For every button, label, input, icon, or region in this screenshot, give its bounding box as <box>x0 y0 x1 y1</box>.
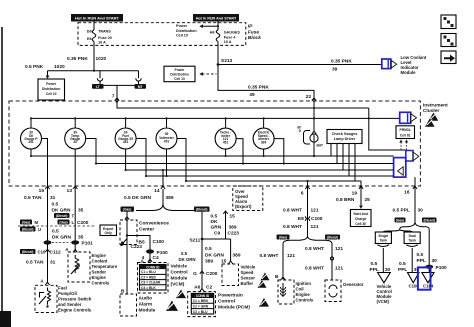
ESD icon PCM <box>259 298 269 307</box>
svg-text:(Diesel): (Diesel) <box>56 214 68 218</box>
svg-text:Export: Export <box>103 227 114 231</box>
VCM connector ID table <box>140 265 167 291</box>
svg-text:C200: C200 <box>77 220 89 226</box>
junction convenience <box>126 234 128 236</box>
svg-text:10 A: 10 A <box>98 40 106 44</box>
vehicle speed sensor buffer dashed box <box>222 264 239 286</box>
gauge side terminal wires <box>42 139 284 187</box>
svg-text:Dual: Dual <box>409 234 416 238</box>
svg-text:U: U <box>38 227 41 232</box>
wire pin6 down <box>307 186 309 236</box>
label 0.5 PPL 30 dual <box>398 261 419 273</box>
svg-text:Controls: Controls <box>296 297 314 302</box>
label 0.5 PNK 1020 <box>25 64 65 70</box>
svg-text:C100: C100 <box>311 216 323 222</box>
svg-text:0.5 TAN: 0.5 TAN <box>24 195 42 201</box>
indicator bulb lamp <box>297 125 323 157</box>
svg-text:(Gas): (Gas) <box>123 208 131 212</box>
svg-text:DK GRN: DK GRN <box>205 253 224 259</box>
wire diesel to generator <box>331 244 333 280</box>
svg-text:C4 = BLK: C4 = BLK <box>141 286 156 290</box>
label 0.5 PPL 30 <box>393 207 424 213</box>
pin 14 drop <box>162 170 164 186</box>
svg-text:C3 = BLU: C3 = BLU <box>193 310 208 314</box>
svg-text:GAUGES: GAUGES <box>224 31 241 35</box>
wire gas branch down <box>126 212 128 236</box>
label (Gas) split left <box>121 207 135 212</box>
wire GAUGES fuse down to S213 <box>217 42 219 65</box>
wire over speed to S211 and VSS buffer <box>202 211 231 262</box>
svg-text:Check Gauges: Check Gauges <box>332 132 358 136</box>
VCM text <box>171 263 188 287</box>
wire pin6 split <box>283 236 332 244</box>
svg-text:and Sender: and Sender <box>58 302 82 307</box>
svg-text:31: 31 <box>50 195 56 201</box>
nav icon button 3 (arrow) <box>441 51 456 64</box>
splice S213 <box>217 58 233 66</box>
svg-text:0.8 WHT: 0.8 WHT <box>260 253 279 259</box>
svg-text:TRANS: TRANS <box>98 29 111 33</box>
svg-text:(Diesel): (Diesel) <box>196 208 208 212</box>
svg-text:389: 389 <box>205 258 213 264</box>
svg-text:0.5: 0.5 <box>211 213 218 219</box>
svg-text:0.5 TAN: 0.5 TAN <box>26 259 44 265</box>
svg-text:C100: C100 <box>153 239 165 245</box>
svg-text:Alarm: Alarm <box>139 301 153 307</box>
svg-text:Hot In RUN And START: Hot In RUN And START <box>75 16 120 21</box>
svg-text:(VCM): (VCM) <box>377 299 390 304</box>
gauge: oil gauge <box>21 128 42 149</box>
svg-text:C1 = BRN: C1 = BRN <box>193 299 209 303</box>
svg-text:C223: C223 <box>131 244 143 250</box>
svg-text:35: 35 <box>78 234 84 240</box>
labels S211 to PCM left <box>179 251 196 262</box>
svg-text:Ignition: Ignition <box>296 281 312 286</box>
label 0.5 TAN 31 <box>24 195 56 201</box>
svg-text:399: 399 <box>261 140 267 144</box>
VCM text right <box>377 284 393 304</box>
svg-text:C223: C223 <box>228 231 240 237</box>
wire header to GAUGES fuse <box>217 22 219 31</box>
wire right feed down <box>369 108 406 150</box>
svg-text:C104: C104 <box>423 283 434 288</box>
svg-text:(Diesel): (Diesel) <box>22 250 34 254</box>
svg-text:Distribution: Distribution <box>176 29 197 33</box>
svg-text:Engine: Engine <box>92 253 107 258</box>
label 0.5 TAN 31 (2) <box>26 259 56 265</box>
labels S211 to PCM right <box>205 246 241 265</box>
svg-text:6: 6 <box>301 190 304 196</box>
svg-text:Controls: Controls <box>92 280 110 285</box>
svg-text:Pressure Switch: Pressure Switch <box>58 296 92 301</box>
wire audio alarm branch <box>126 236 128 294</box>
svg-text:DK GRN: DK GRN <box>52 207 71 213</box>
svg-text:PRNDL: PRNDL <box>400 128 411 132</box>
svg-text:35: 35 <box>78 207 84 213</box>
blue connector top right <box>400 112 417 123</box>
label (Diesel) tank <box>422 218 437 223</box>
caret fuel pump <box>45 282 49 285</box>
svg-text:PPL: PPL <box>398 267 407 273</box>
svg-text:Coil: Coil <box>296 286 304 291</box>
IP fuse block dashed box <box>78 23 246 46</box>
gauge: temp gauge <box>65 128 86 149</box>
svg-text:Audio: Audio <box>139 295 153 301</box>
wire pin 19 to start and charge <box>359 186 363 209</box>
ignition coil text <box>296 281 314 303</box>
inline connector P100 (right) <box>425 265 447 271</box>
svg-text:0.8 WHT: 0.8 WHT <box>283 224 302 230</box>
svg-text:C10: C10 <box>38 250 46 255</box>
svg-text:P101: P101 <box>82 241 94 247</box>
fuel pump text <box>58 285 92 312</box>
svg-text:25: 25 <box>365 197 371 203</box>
svg-text:A: A <box>40 278 43 283</box>
svg-text:(Gas): (Gas) <box>396 219 404 223</box>
wire pin 7 drop <box>112 85 119 102</box>
wire S213 down right to pin 22 <box>218 65 316 102</box>
label 0.8 WHT 121 <box>283 207 319 213</box>
svg-text:(Gas): (Gas) <box>279 236 287 240</box>
svg-text:0.5: 0.5 <box>399 261 406 267</box>
svg-text:Cell 10: Cell 10 <box>174 77 185 81</box>
svg-text:C2 = GRN: C2 = GRN <box>193 304 209 308</box>
off-page triangle C104 <box>422 273 434 283</box>
svg-text:16: 16 <box>404 189 410 195</box>
over speed alarm dashed box <box>233 186 263 211</box>
svg-text:0.8 WHT: 0.8 WHT <box>305 246 324 252</box>
svg-text:0.5: 0.5 <box>371 261 378 267</box>
blue highlight rectangle <box>418 267 431 289</box>
svg-text:(Gas): (Gas) <box>22 221 30 225</box>
svg-text:S211: S211 <box>189 238 200 244</box>
svg-text:451: 451 <box>28 140 34 144</box>
svg-text:Power: Power <box>175 68 186 72</box>
svg-text:13: 13 <box>67 188 73 194</box>
svg-text:1020: 1020 <box>96 56 107 62</box>
off-page triangle VCM <box>378 273 391 283</box>
svg-text:A: A <box>65 247 68 252</box>
svg-text:Fuel: Fuel <box>58 285 67 290</box>
svg-text:C200: C200 <box>206 271 218 277</box>
svg-text:G: G <box>193 271 197 277</box>
svg-text:Sender: Sender <box>92 269 107 274</box>
fuse F4 GAUGES <box>210 30 241 44</box>
wire gas tank split <box>383 230 412 233</box>
low coolant module text <box>401 55 427 75</box>
wire S211 to PCM <box>201 239 203 290</box>
connector A6 C2 <box>194 284 212 291</box>
svg-text:BAT: BAT <box>317 144 323 148</box>
wire TRANS fuse down <box>93 42 95 71</box>
svg-text:M: M <box>35 220 39 225</box>
svg-text:Center: Center <box>139 226 154 232</box>
svg-text:0.5 DK GRN: 0.5 DK GRN <box>124 195 151 201</box>
label (Gas) L C200 <box>58 220 89 227</box>
svg-text:CONN ID: CONN ID <box>196 294 210 298</box>
svg-text:39: 39 <box>332 66 338 72</box>
blue connector bottom right assembly <box>394 151 419 178</box>
fuel pump / oil pressure switch box <box>35 285 57 312</box>
label (Gas) M <box>20 220 39 226</box>
svg-text:Fuse 20: Fuse 20 <box>98 36 112 40</box>
engine coolant temperature sender box <box>68 252 90 282</box>
svg-text:Power: Power <box>46 82 57 86</box>
svg-text:22: 22 <box>306 94 312 100</box>
connector line C200 <box>18 225 95 227</box>
svg-text:30: 30 <box>432 258 438 264</box>
dual tank box <box>404 232 420 244</box>
gauge: electric speedometer <box>253 128 274 149</box>
wire single tank down <box>382 248 384 272</box>
svg-text:15: 15 <box>230 213 236 219</box>
check gauges lamp driver box <box>327 130 362 144</box>
svg-text:Cell 81: Cell 81 <box>400 134 411 138</box>
svg-text:Module (PCM): Module (PCM) <box>218 305 250 311</box>
connector socket MT <box>136 71 141 86</box>
svg-text:C9: C9 <box>214 231 220 237</box>
svg-text:Lamp Driver: Lamp Driver <box>334 137 356 141</box>
svg-text:35: 35 <box>73 140 77 144</box>
labels over speed wire <box>228 213 240 236</box>
label A + caret VCM <box>141 258 153 263</box>
export only box <box>100 225 117 236</box>
ESD icons audio <box>166 290 186 311</box>
svg-text:1020: 1020 <box>54 64 65 70</box>
caret convenience center <box>125 217 129 220</box>
generator dashed box <box>325 280 341 302</box>
svg-text:S213: S213 <box>221 58 233 64</box>
label B + caret ignition <box>275 274 285 280</box>
label 0.5 DK GRN 35 (2) <box>52 228 84 240</box>
PCM dashed box <box>188 292 216 317</box>
svg-text:0.35 PNK: 0.35 PNK <box>331 58 352 64</box>
svg-text:C4: C4 <box>153 255 159 261</box>
svg-text:0.5: 0.5 <box>52 228 59 234</box>
svg-text:H6: H6 <box>210 30 215 34</box>
svg-text:Power: Power <box>176 24 188 28</box>
svg-text:(Export): (Export) <box>235 204 252 209</box>
junction dots bundle <box>30 155 285 182</box>
svg-text:Fuse: Fuse <box>248 30 260 36</box>
wire diesel tank down <box>428 230 430 273</box>
audio alarm module dashed box <box>120 294 137 316</box>
svg-text:(VCM): (VCM) <box>171 281 185 287</box>
svg-text:121: 121 <box>287 253 295 259</box>
svg-text:0.5: 0.5 <box>52 201 59 207</box>
svg-text:Temperature: Temperature <box>92 264 118 269</box>
svg-text:C112: C112 <box>50 250 62 256</box>
connector G C200 <box>193 271 218 277</box>
wire pin 22 internal <box>313 101 315 132</box>
svg-text:(Diesel): (Diesel) <box>22 228 34 232</box>
svg-text:121: 121 <box>335 246 343 252</box>
label MT <box>135 84 147 89</box>
svg-text:39: 39 <box>249 92 255 98</box>
svg-text:31: 31 <box>50 259 56 265</box>
svg-text:Vehicle: Vehicle <box>171 263 188 269</box>
nav icon button 2 <box>441 34 456 47</box>
svg-text:E8: E8 <box>298 216 304 222</box>
svg-text:14: 14 <box>154 188 160 194</box>
svg-text:Single: Single <box>378 234 388 238</box>
connector symbol generator wire <box>330 257 333 260</box>
svg-text:DK: DK <box>211 219 218 225</box>
wire gauge bus <box>31 117 400 119</box>
gauge drop wires <box>31 118 264 128</box>
svg-text:Cell 30: Cell 30 <box>355 222 366 226</box>
frame left border <box>1 27 3 327</box>
inline connector P100 <box>146 249 168 255</box>
svg-text:30: 30 <box>418 207 424 213</box>
svg-text:L: L <box>72 220 75 225</box>
label 0.5 PPL 30 diesel <box>417 252 438 264</box>
wire dual tank down <box>411 248 413 272</box>
connector socket LT <box>97 71 102 86</box>
wire pin14 split <box>136 189 194 211</box>
splice S211 <box>189 238 203 244</box>
wire junction to C100 branch <box>127 236 150 263</box>
caret VSS buffer <box>228 261 232 264</box>
power distribution cell 10 box (mid) <box>164 66 195 82</box>
arrow to power distribution <box>46 71 50 79</box>
label 0.8 WHT 121 diesel lower <box>305 265 343 271</box>
svg-text:(Gas): (Gas) <box>59 221 67 225</box>
convenience center dashed box <box>120 220 137 245</box>
svg-text:PPL: PPL <box>417 258 426 264</box>
instrument cluster label <box>423 103 448 115</box>
svg-text:C2 = RED: C2 = RED <box>141 275 157 279</box>
ESD warning icon (cluster) <box>425 113 438 127</box>
label 0.5 DK GRN 35 <box>52 201 84 213</box>
wire split bar <box>48 70 139 72</box>
svg-text:T: T <box>72 214 75 219</box>
svg-text:Hot In RUN And START: Hot In RUN And START <box>196 17 237 21</box>
dashed arrow to power distribution box <box>199 72 216 76</box>
svg-text:451: 451 <box>123 140 129 144</box>
svg-text:0.5 PPL: 0.5 PPL <box>393 207 410 213</box>
label (Diesel) C10 <box>20 249 46 255</box>
wire pin16 down <box>414 186 416 222</box>
pin 19 drop <box>360 181 362 186</box>
off-page triangle C100 <box>408 273 420 283</box>
svg-text:(Diesel): (Diesel) <box>423 219 435 223</box>
wire joining bar <box>100 84 139 86</box>
svg-text:0.8 WHT: 0.8 WHT <box>305 265 324 271</box>
svg-text:Block: Block <box>248 35 261 41</box>
svg-text:10 A: 10 A <box>224 40 232 44</box>
wire pin13 to coolant sender <box>74 186 76 251</box>
fuse F20 TRANS <box>87 29 112 44</box>
svg-text:DK GRN: DK GRN <box>179 257 196 262</box>
label (Gas) tank <box>395 218 406 223</box>
inline connector P101 <box>44 240 94 246</box>
labels diesel branch <box>211 213 222 236</box>
svg-text:Buffer: Buffer <box>241 281 254 286</box>
svg-text:C2: C2 <box>206 284 212 290</box>
engine coolant sender text <box>92 253 118 286</box>
svg-text:389: 389 <box>229 225 237 231</box>
svg-text:GRN: GRN <box>211 225 222 231</box>
svg-text:Generator: Generator <box>343 282 364 287</box>
svg-text:Convenience: Convenience <box>139 220 169 226</box>
svg-text:121: 121 <box>311 224 319 230</box>
wire pin7 internal feed <box>117 101 369 108</box>
label (Diesel) generator <box>325 235 340 240</box>
gauge: voltmeter <box>156 128 177 149</box>
IP Fuse Block label <box>248 24 261 42</box>
header label: Hot In RUN And START (right) <box>193 14 239 22</box>
label LT <box>92 84 104 89</box>
VSS buffer text <box>241 264 256 286</box>
svg-text:451: 451 <box>223 140 229 144</box>
gauge bottom terminal wires <box>31 149 264 186</box>
svg-text:E8: E8 <box>87 37 92 41</box>
svg-text:B: B <box>275 274 279 280</box>
svg-text:Start And: Start And <box>353 212 368 216</box>
label (Gas) ignition <box>277 235 290 240</box>
label 0.8 WHT 121 gas <box>260 253 296 259</box>
svg-text:Module: Module <box>139 307 156 313</box>
wire pin15 to fuel pump <box>47 186 49 284</box>
label (Diesel) T <box>54 213 75 219</box>
label 0.8 BRN 25 <box>336 197 370 203</box>
svg-text:19: 19 <box>352 190 358 196</box>
svg-text:CONN ID: CONN ID <box>146 265 160 269</box>
svg-text:Engine: Engine <box>296 292 311 297</box>
power distribution cell 10 text (top) <box>176 24 197 38</box>
label (Diesel) split right <box>194 207 210 212</box>
frame corner block <box>0 311 11 327</box>
label 0.8 WHT 121 (2) <box>283 224 319 230</box>
label (Diesel) U <box>20 227 41 233</box>
svg-text:Tank: Tank <box>408 238 416 242</box>
PRNDL box <box>396 126 415 139</box>
svg-text:7: 7 <box>112 94 115 100</box>
label 0.8 WHT 121 diesel upper <box>305 246 343 252</box>
start and charge cell 30 box <box>350 210 371 227</box>
caret coolant <box>73 250 77 253</box>
ESD icons VSS buffer <box>258 273 270 288</box>
svg-text:15: 15 <box>39 188 45 194</box>
wire pin16 split <box>400 222 430 230</box>
svg-text:0.35 PNK: 0.35 PNK <box>67 56 88 62</box>
svg-text:Distribution: Distribution <box>42 87 61 91</box>
pin 16 drop <box>414 177 416 186</box>
header label: Hot In RUN And START (left) <box>71 14 123 22</box>
PCM text <box>218 293 250 311</box>
svg-text:P100: P100 <box>436 265 448 271</box>
PCM connector ID table <box>191 293 213 314</box>
label B5 C100 <box>139 239 165 246</box>
wire header to TRANS fuse <box>93 22 95 31</box>
label 4 C4 <box>142 255 159 261</box>
svg-text:Control: Control <box>171 269 188 275</box>
arrow decoration audio branch <box>121 239 127 246</box>
svg-text:Coolant: Coolant <box>92 258 109 263</box>
svg-text:Vehicle: Vehicle <box>241 264 256 269</box>
svg-text:0.5: 0.5 <box>417 252 424 258</box>
dashed arrows into PRNDL <box>399 140 408 151</box>
svg-text:121: 121 <box>335 265 343 271</box>
single tank box <box>375 232 391 244</box>
label 0.35 PNK 39 <box>331 58 352 72</box>
gauge: fuel gauge <box>115 128 136 149</box>
svg-text:0.35 PNK: 0.35 PNK <box>248 84 269 90</box>
svg-text:451: 451 <box>164 139 170 143</box>
svg-text:121: 121 <box>311 207 319 213</box>
svg-text:Speed: Speed <box>241 270 254 275</box>
